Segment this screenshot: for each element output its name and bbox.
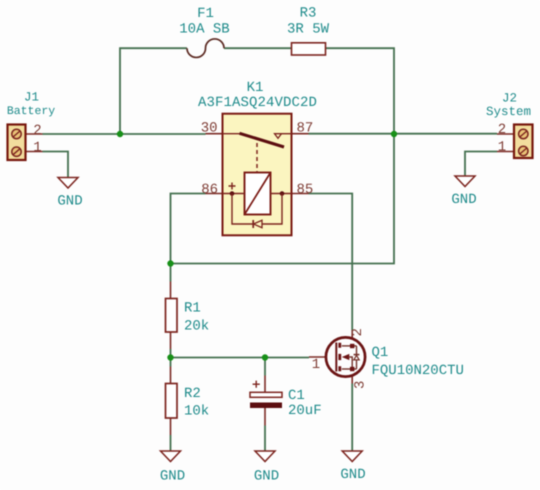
svg-text:GND: GND <box>340 467 365 483</box>
svg-text:GND: GND <box>254 469 279 485</box>
svg-text:10A SB: 10A SB <box>179 21 229 37</box>
svg-text:2: 2 <box>33 123 41 139</box>
svg-text:Q1: Q1 <box>372 345 389 361</box>
svg-text:3R 5W: 3R 5W <box>287 22 330 38</box>
svg-text:2: 2 <box>498 122 506 138</box>
svg-text:1: 1 <box>498 140 506 156</box>
svg-text:R2: R2 <box>184 386 201 402</box>
svg-text:20uF: 20uF <box>288 403 322 419</box>
svg-text:GND: GND <box>57 194 82 210</box>
svg-text:F1: F1 <box>197 6 214 22</box>
svg-text:86: 86 <box>201 182 218 198</box>
svg-text:1: 1 <box>312 357 320 373</box>
svg-text:3: 3 <box>353 381 369 389</box>
svg-text:Battery: Battery <box>7 105 55 118</box>
svg-text:GND: GND <box>451 192 476 208</box>
svg-text:J1: J1 <box>24 91 39 105</box>
svg-text:FQU10N20CTU: FQU10N20CTU <box>372 363 464 379</box>
svg-text:30: 30 <box>201 121 218 137</box>
svg-text:10k: 10k <box>184 404 209 420</box>
svg-text:K1: K1 <box>247 80 264 96</box>
svg-text:A3F1ASQ24VDC2D: A3F1ASQ24VDC2D <box>198 95 317 111</box>
svg-text:C1: C1 <box>288 388 305 404</box>
svg-text:R3: R3 <box>300 6 317 22</box>
svg-text:87: 87 <box>297 121 314 137</box>
svg-text:R1: R1 <box>184 301 201 317</box>
svg-text:1: 1 <box>33 140 41 156</box>
svg-text:System: System <box>486 105 531 119</box>
svg-text:J2: J2 <box>502 92 517 106</box>
svg-text:2: 2 <box>350 328 366 336</box>
svg-text:85: 85 <box>297 182 314 198</box>
svg-text:20k: 20k <box>184 319 209 335</box>
svg-text:GND: GND <box>160 469 185 485</box>
